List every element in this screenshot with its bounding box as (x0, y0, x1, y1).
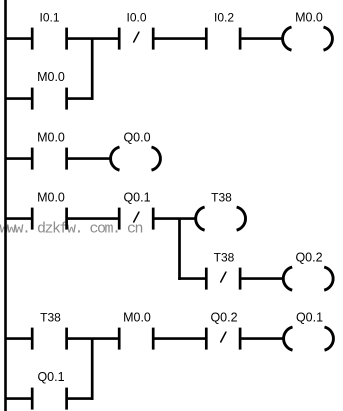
wire rail to M0.0 rung2 (6, 157, 32, 160)
contact M0.0 (rung 4) (119, 328, 153, 350)
svg-text:www. dzkfw. com. cn: www. dzkfw. com. cn (0, 221, 143, 238)
wire Q0.2 to coil Q0.1 (241, 337, 283, 340)
wire Q0.1 branch to junction (68, 397, 94, 400)
contact M0.0 (rung 2) (32, 148, 66, 170)
coil Q0.1 (284, 327, 334, 350)
contact Q0.2 (NC, rung 4) (206, 328, 240, 350)
wire M0.0 branch to junction (68, 97, 94, 100)
wire rail to T38 rung4 (6, 337, 32, 340)
wire I0.2 to coil M0.0 (241, 37, 283, 40)
svg-text:T38: T38 (40, 310, 61, 324)
svg-text:M0.0: M0.0 (37, 70, 65, 84)
wire M0.0 to Q0.1 rung3 (68, 217, 118, 220)
svg-text:Q0.1: Q0.1 (37, 370, 64, 384)
svg-text:Q0.0: Q0.0 (123, 130, 150, 144)
svg-text:M0.0: M0.0 (37, 190, 65, 204)
wire M0.0 to coil Q0.0 (68, 157, 111, 160)
wire T38 NC to coil Q0.2 (241, 277, 283, 280)
wire rail to I0.1 (6, 37, 32, 40)
wire rail to M0.0 parallel branch (6, 97, 32, 100)
wire I0.0 to I0.2 (155, 37, 206, 40)
coil M0.0 (283, 27, 333, 50)
svg-text:I0.0: I0.0 (126, 10, 146, 24)
svg-text:M0.0: M0.0 (295, 10, 323, 24)
wire rail to Q0.1 parallel branch (6, 397, 32, 400)
svg-text:T38: T38 (211, 190, 232, 204)
contact I0.2 (206, 28, 240, 50)
NC slash T38 branch (221, 272, 226, 282)
contact T38 (rung 4) (32, 328, 66, 350)
contact Q0.1 (NC, rung 3) (119, 208, 153, 230)
svg-text:M0.0: M0.0 (37, 130, 65, 144)
contact Q0.1 (parallel to T38) (32, 388, 66, 410)
wire Q0.1 to coil T38 (155, 217, 196, 220)
svg-text:Q0.2: Q0.2 (210, 310, 237, 324)
NC slash I0.0 (134, 32, 139, 42)
contact M0.0 (parallel to I0.1) (32, 88, 66, 110)
wire I0.1 to I0.0 (68, 37, 118, 40)
svg-text:M0.0: M0.0 (123, 310, 151, 324)
contact I0.1 (32, 28, 66, 50)
contact T38 (NC, branch) (206, 268, 240, 290)
contact I0.0 (NC) (119, 28, 153, 50)
junction vertical rung1 (91, 39, 94, 100)
wire T38 to M0.0 rung4 (68, 337, 118, 340)
left power rail (4, 0, 7, 411)
wire rail to M0.0 rung3 (6, 217, 32, 220)
svg-text:I0.2: I0.2 (214, 10, 234, 24)
svg-text:Q0.2: Q0.2 (295, 250, 322, 264)
coil T38 (196, 207, 246, 230)
svg-text:I0.1: I0.1 (39, 10, 59, 24)
wire M0.0 to Q0.2 rung4 (155, 337, 206, 340)
NC slash Q0.2 rung4 (221, 332, 226, 342)
coil Q0.2 (283, 267, 333, 290)
NC slash Q0.1 rung3 (134, 212, 139, 222)
svg-text:Q0.1: Q0.1 (123, 190, 150, 204)
svg-text:T38: T38 (214, 250, 235, 264)
contact M0.0 (rung 3) (32, 208, 66, 230)
junction vertical rung4 (91, 339, 94, 400)
wire junction to T38 NC branch (178, 277, 205, 280)
junction vertical rung3 (178, 219, 181, 280)
coil Q0.0 (111, 147, 161, 170)
svg-text:Q0.1: Q0.1 (296, 310, 323, 324)
